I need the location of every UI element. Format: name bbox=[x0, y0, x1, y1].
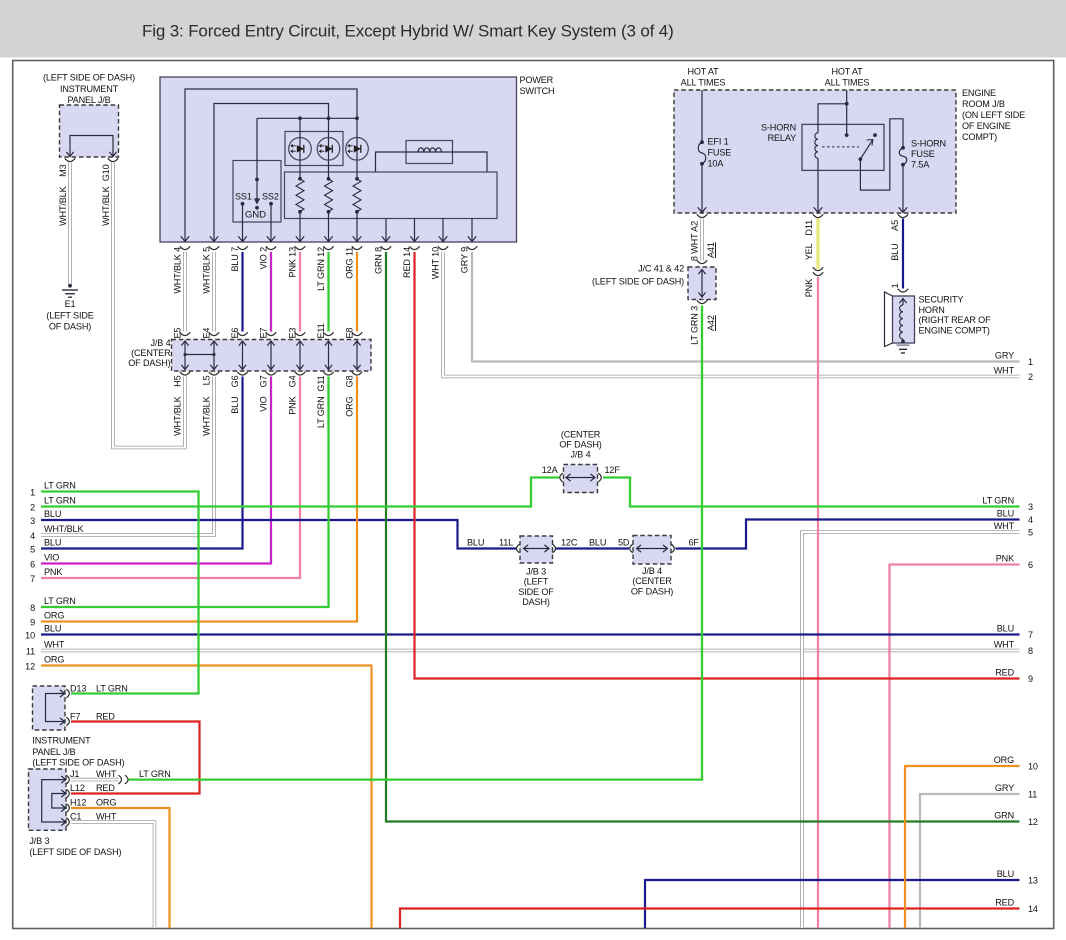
svg-text:GRN: GRN bbox=[994, 811, 1014, 821]
svg-text:ORG: ORG bbox=[44, 611, 64, 621]
svg-text:A41: A41 bbox=[706, 242, 716, 258]
svg-text:L12: L12 bbox=[70, 783, 85, 793]
svg-text:12A: 12A bbox=[542, 465, 559, 475]
svg-text:LT GRN: LT GRN bbox=[44, 481, 76, 491]
svg-text:(LEFT SIDE OF DASH): (LEFT SIDE OF DASH) bbox=[29, 847, 121, 857]
svg-text:WHT/BLK: WHT/BLK bbox=[44, 524, 83, 534]
svg-text:H5: H5 bbox=[173, 375, 183, 386]
svg-text:J/B 4: J/B 4 bbox=[151, 338, 171, 348]
svg-text:HOT AT: HOT AT bbox=[687, 67, 719, 77]
svg-text:BLU: BLU bbox=[467, 538, 484, 548]
svg-text:10A: 10A bbox=[708, 159, 725, 169]
svg-text:11: 11 bbox=[26, 647, 35, 657]
svg-text:M3: M3 bbox=[58, 164, 68, 176]
svg-text:BLU: BLU bbox=[44, 538, 61, 548]
svg-text:S-HORN: S-HORN bbox=[911, 139, 946, 149]
svg-text:BLU: BLU bbox=[997, 869, 1014, 879]
svg-text:RED: RED bbox=[96, 783, 115, 793]
svg-text:3: 3 bbox=[30, 516, 35, 526]
svg-text:11L: 11L bbox=[499, 538, 513, 548]
svg-text:VIO 2: VIO 2 bbox=[259, 247, 269, 270]
svg-text:OF DASH): OF DASH) bbox=[49, 322, 91, 332]
svg-text:J/B 4: J/B 4 bbox=[642, 566, 662, 576]
svg-text:OF ENGINE: OF ENGINE bbox=[962, 121, 1011, 131]
svg-text:(LEFT SIDE OF DASH): (LEFT SIDE OF DASH) bbox=[43, 73, 135, 83]
svg-text:ROOM J/B: ROOM J/B bbox=[962, 99, 1005, 109]
svg-text:PNK: PNK bbox=[44, 567, 62, 577]
svg-text:G6: G6 bbox=[230, 375, 240, 387]
svg-text:LT GRN: LT GRN bbox=[982, 496, 1014, 506]
svg-text:GRN 8: GRN 8 bbox=[374, 247, 384, 274]
svg-text:GRY: GRY bbox=[995, 351, 1014, 361]
svg-text:4: 4 bbox=[1028, 515, 1033, 525]
svg-text:G7: G7 bbox=[259, 375, 269, 387]
svg-text:WHT: WHT bbox=[96, 769, 117, 779]
svg-text:ENGINE COMPT): ENGINE COMPT) bbox=[919, 325, 990, 335]
svg-text:INSTRUMENT: INSTRUMENT bbox=[32, 736, 91, 746]
svg-text:FUSE: FUSE bbox=[911, 149, 935, 159]
svg-text:OF DASH): OF DASH) bbox=[631, 586, 673, 596]
svg-text:COMPT): COMPT) bbox=[962, 132, 997, 142]
svg-text:LT GRN: LT GRN bbox=[139, 769, 171, 779]
svg-text:F7: F7 bbox=[70, 711, 80, 721]
svg-text:BLU: BLU bbox=[997, 624, 1014, 634]
svg-text:WHT/BLK: WHT/BLK bbox=[101, 186, 111, 225]
svg-text:(ON LEFT SIDE: (ON LEFT SIDE bbox=[962, 110, 1025, 120]
svg-text:PNK: PNK bbox=[288, 396, 298, 414]
svg-text:RELAY: RELAY bbox=[768, 133, 796, 143]
svg-text:WHT: WHT bbox=[994, 640, 1015, 650]
svg-text:ALL TIMES: ALL TIMES bbox=[825, 78, 870, 88]
svg-text:(CENTER: (CENTER bbox=[632, 576, 672, 586]
svg-text:(LEFT SIDE OF DASH): (LEFT SIDE OF DASH) bbox=[592, 277, 684, 287]
svg-text:(CENTER: (CENTER bbox=[131, 348, 171, 358]
svg-text:LT GRN: LT GRN bbox=[316, 397, 326, 429]
svg-text:GRY 9: GRY 9 bbox=[460, 247, 470, 273]
svg-text:LT GRN: LT GRN bbox=[44, 496, 76, 506]
svg-text:ORG: ORG bbox=[345, 396, 355, 416]
svg-text:E8: E8 bbox=[345, 328, 355, 339]
svg-text:1: 1 bbox=[1028, 357, 1033, 367]
svg-text:RED: RED bbox=[96, 711, 115, 721]
svg-text:BLU: BLU bbox=[997, 509, 1014, 519]
svg-text:5D: 5D bbox=[618, 538, 630, 548]
svg-text:WHT: WHT bbox=[994, 366, 1015, 376]
svg-text:FUSE: FUSE bbox=[708, 148, 732, 158]
svg-text:9: 9 bbox=[30, 618, 35, 628]
svg-text:7: 7 bbox=[1028, 630, 1033, 640]
svg-text:A42: A42 bbox=[706, 315, 716, 331]
svg-text:WHT/BLK: WHT/BLK bbox=[202, 396, 212, 435]
svg-text:HOT AT: HOT AT bbox=[831, 67, 863, 77]
svg-text:7: 7 bbox=[30, 574, 35, 584]
svg-text:E7: E7 bbox=[259, 328, 269, 339]
svg-text:A5: A5 bbox=[890, 220, 900, 231]
svg-text:12F: 12F bbox=[605, 465, 621, 475]
svg-text:PNK: PNK bbox=[996, 554, 1014, 564]
svg-text:E4: E4 bbox=[202, 328, 212, 339]
svg-text:10: 10 bbox=[25, 631, 35, 641]
svg-text:J1: J1 bbox=[70, 769, 79, 779]
svg-text:RED: RED bbox=[995, 668, 1014, 678]
svg-text:L5: L5 bbox=[202, 375, 212, 385]
svg-text:E11: E11 bbox=[316, 323, 326, 338]
svg-text:WHT/BLK 5: WHT/BLK 5 bbox=[202, 247, 212, 294]
svg-text:2: 2 bbox=[1028, 372, 1033, 382]
svg-text:ORG: ORG bbox=[44, 655, 64, 665]
svg-text:Fig 3: Forced Entry Circuit, E: Fig 3: Forced Entry Circuit, Except Hybr… bbox=[142, 22, 674, 41]
svg-text:(LEFT SIDE: (LEFT SIDE bbox=[46, 311, 93, 321]
svg-text:12: 12 bbox=[25, 662, 35, 672]
svg-text:LT GRN: LT GRN bbox=[96, 683, 128, 693]
svg-text:BLU 7: BLU 7 bbox=[230, 247, 240, 272]
svg-text:(LEFT SIDE OF DASH): (LEFT SIDE OF DASH) bbox=[32, 758, 124, 768]
svg-text:J/B 3: J/B 3 bbox=[526, 567, 546, 577]
svg-text:LT GRN 12: LT GRN 12 bbox=[316, 247, 326, 291]
svg-text:5: 5 bbox=[1028, 528, 1033, 538]
svg-text:2: 2 bbox=[30, 503, 35, 513]
svg-text:12C: 12C bbox=[561, 538, 578, 548]
svg-text:G11: G11 bbox=[316, 375, 326, 391]
svg-text:6F: 6F bbox=[689, 538, 700, 548]
svg-text:PNK: PNK bbox=[804, 279, 814, 297]
svg-text:OF DASH): OF DASH) bbox=[128, 358, 170, 368]
svg-text:6: 6 bbox=[30, 560, 35, 570]
svg-text:BLU: BLU bbox=[589, 538, 606, 548]
svg-text:WHT/BLK: WHT/BLK bbox=[58, 186, 68, 225]
svg-text:ORG: ORG bbox=[994, 755, 1014, 765]
svg-text:S-HORN: S-HORN bbox=[761, 123, 796, 133]
svg-text:HORN: HORN bbox=[919, 305, 945, 315]
svg-text:ALL TIMES: ALL TIMES bbox=[681, 78, 726, 88]
svg-text:(CENTER: (CENTER bbox=[561, 430, 601, 440]
svg-text:WHT: WHT bbox=[44, 640, 65, 650]
svg-text:E5: E5 bbox=[173, 328, 183, 339]
svg-text:RED 14: RED 14 bbox=[402, 247, 412, 278]
svg-text:8: 8 bbox=[30, 603, 35, 613]
svg-text:6: 6 bbox=[1028, 560, 1033, 570]
svg-text:DASH): DASH) bbox=[522, 597, 550, 607]
svg-text:G8: G8 bbox=[345, 375, 355, 387]
svg-text:BLU: BLU bbox=[890, 244, 900, 261]
svg-text:WHT 10: WHT 10 bbox=[431, 247, 441, 279]
svg-text:LT GRN 3: LT GRN 3 bbox=[690, 306, 700, 345]
svg-text:WHT/BLK 4: WHT/BLK 4 bbox=[173, 247, 183, 294]
svg-text:WHT/BLK: WHT/BLK bbox=[173, 396, 183, 435]
svg-text:GND: GND bbox=[245, 210, 266, 221]
svg-text:J/B 3: J/B 3 bbox=[29, 836, 49, 846]
svg-text:5: 5 bbox=[30, 545, 35, 555]
svg-text:G4: G4 bbox=[288, 375, 298, 387]
svg-text:YEL: YEL bbox=[804, 243, 814, 260]
svg-text:J/C 41 & 42: J/C 41 & 42 bbox=[638, 264, 684, 274]
svg-text:13: 13 bbox=[1028, 876, 1038, 886]
svg-text:ORG: ORG bbox=[96, 797, 116, 807]
svg-text:SECURITY: SECURITY bbox=[919, 295, 964, 305]
svg-text:14: 14 bbox=[1028, 904, 1038, 914]
svg-text:C1: C1 bbox=[70, 811, 81, 821]
svg-text:D13: D13 bbox=[70, 683, 86, 693]
svg-text:WHT: WHT bbox=[994, 521, 1015, 531]
svg-text:INSTRUMENT: INSTRUMENT bbox=[60, 84, 119, 94]
svg-text:7.5A: 7.5A bbox=[911, 160, 930, 170]
svg-text:OF DASH): OF DASH) bbox=[559, 440, 601, 450]
svg-text:BLU: BLU bbox=[230, 397, 240, 414]
svg-text:RED: RED bbox=[995, 898, 1014, 908]
svg-text:10: 10 bbox=[1028, 762, 1038, 772]
svg-text:VIO: VIO bbox=[259, 396, 269, 411]
svg-text:E6: E6 bbox=[230, 328, 240, 339]
svg-text:4: 4 bbox=[30, 531, 35, 541]
svg-text:(RIGHT REAR OF: (RIGHT REAR OF bbox=[919, 315, 992, 325]
svg-text:LT GRN: LT GRN bbox=[44, 596, 76, 606]
svg-text:8 WHT A2: 8 WHT A2 bbox=[690, 221, 700, 261]
svg-text:D11: D11 bbox=[804, 220, 814, 236]
svg-text:PANEL J/B: PANEL J/B bbox=[67, 95, 110, 105]
svg-text:(LEFT: (LEFT bbox=[524, 577, 549, 587]
svg-text:SWITCH: SWITCH bbox=[520, 86, 555, 96]
svg-text:BLU: BLU bbox=[44, 509, 61, 519]
svg-text:H12: H12 bbox=[70, 797, 86, 807]
svg-text:G10: G10 bbox=[101, 164, 111, 181]
svg-text:VIO: VIO bbox=[44, 553, 59, 563]
svg-text:POWER: POWER bbox=[520, 75, 554, 85]
svg-text:ORG 11: ORG 11 bbox=[345, 247, 355, 279]
svg-text:1: 1 bbox=[890, 283, 900, 288]
svg-text:E1: E1 bbox=[65, 299, 76, 309]
svg-text:9: 9 bbox=[1028, 674, 1033, 684]
svg-text:EFI 1: EFI 1 bbox=[708, 137, 729, 147]
svg-text:11: 11 bbox=[1028, 790, 1037, 800]
svg-text:1: 1 bbox=[30, 488, 35, 498]
svg-text:12: 12 bbox=[1028, 817, 1038, 827]
svg-text:SS1: SS1 bbox=[235, 192, 252, 202]
svg-text:WHT: WHT bbox=[96, 811, 117, 821]
svg-text:E3: E3 bbox=[288, 328, 298, 339]
svg-text:J/B 4: J/B 4 bbox=[571, 450, 591, 460]
svg-text:SIDE OF: SIDE OF bbox=[518, 587, 554, 597]
svg-text:SS2: SS2 bbox=[262, 192, 279, 202]
svg-text:PANEL J/B: PANEL J/B bbox=[32, 747, 75, 757]
svg-text:BLU: BLU bbox=[44, 624, 61, 634]
svg-text:ENGINE: ENGINE bbox=[962, 88, 996, 98]
svg-text:3: 3 bbox=[1028, 502, 1033, 512]
svg-text:GRY: GRY bbox=[995, 783, 1014, 793]
svg-text:PNK 13: PNK 13 bbox=[288, 247, 298, 278]
svg-text:8: 8 bbox=[1028, 646, 1033, 656]
